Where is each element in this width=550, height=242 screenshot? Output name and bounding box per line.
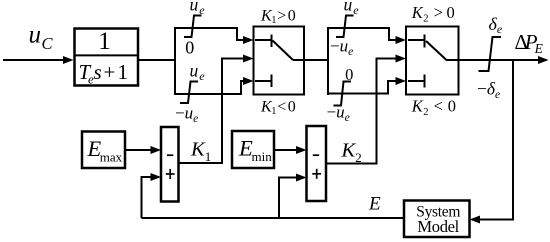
svg-text:−ue: −ue bbox=[175, 104, 198, 125]
svg-text:Model: Model bbox=[417, 217, 459, 236]
svg-text:K1>0: K1>0 bbox=[260, 8, 296, 26]
svg-text:ue: ue bbox=[190, 0, 206, 17]
svg-text:max: max bbox=[100, 150, 123, 165]
svg-text:−ue: −ue bbox=[327, 103, 350, 124]
svg-text:−ue: −ue bbox=[330, 37, 353, 58]
svg-text:K2<0: K2<0 bbox=[411, 97, 456, 118]
svg-text:ue: ue bbox=[344, 0, 360, 17]
svg-text:1: 1 bbox=[98, 26, 111, 55]
svg-text:0: 0 bbox=[185, 37, 194, 57]
svg-text:K1<0: K1<0 bbox=[260, 99, 296, 117]
svg-text:ue: ue bbox=[190, 61, 206, 83]
svg-text:ΔPE: ΔPE bbox=[515, 30, 544, 56]
svg-text:K2>0: K2>0 bbox=[411, 3, 455, 24]
svg-text:δe: δe bbox=[489, 14, 503, 36]
svg-text:0: 0 bbox=[345, 65, 353, 84]
svg-text:uC: uC bbox=[29, 21, 54, 53]
svg-text:−δe: −δe bbox=[477, 79, 500, 101]
svg-text:K1: K1 bbox=[190, 139, 211, 165]
svg-text:K2: K2 bbox=[341, 140, 362, 166]
svg-text:min: min bbox=[252, 149, 273, 164]
svg-text:Tes+1: Tes+1 bbox=[79, 60, 129, 87]
svg-text:E: E bbox=[368, 194, 381, 215]
